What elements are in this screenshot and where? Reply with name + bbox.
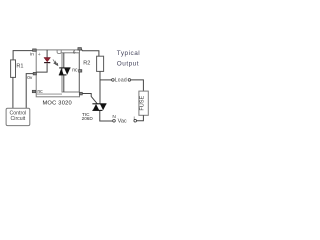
photo-triac of U1 — [59, 68, 71, 75]
node L line terminal — [134, 119, 137, 122]
wire pin 6 to R2 — [81, 49, 99, 56]
LED D1 — [44, 58, 51, 64]
triac Q1 TIC 206D — [92, 104, 106, 111]
wire Load terminal to fuse — [131, 80, 144, 91]
detector chip inner box — [62, 53, 79, 92]
svg-text:R1: R1 — [16, 64, 23, 70]
wire 0v from control circuit to opto pin 2 — [26, 74, 34, 109]
svg-text:Circuit: Circuit — [11, 116, 26, 122]
wire pin 4 to triac gate — [82, 94, 97, 104]
svg-text:nc: nc — [37, 89, 43, 95]
title Typical Output — [117, 50, 140, 68]
svg-text:MOC 3020: MOC 3020 — [42, 100, 72, 106]
package notch — [57, 50, 61, 54]
svg-text:+: + — [38, 52, 41, 58]
svg-text:L: L — [134, 115, 137, 121]
node Load right terminal — [128, 79, 131, 82]
pin 2 stub — [33, 72, 36, 75]
svg-text:Output: Output — [117, 60, 139, 67]
wire R2 bottom to triac MT2 — [99, 71, 101, 103]
pin 3 stub — [32, 90, 35, 92]
svg-text:in: in — [30, 52, 34, 58]
node Load left terminal — [112, 79, 115, 82]
wire from R1 bottom to control circuit — [12, 77, 14, 108]
label TIC 206D — [82, 112, 94, 121]
light emission arrows — [53, 59, 58, 65]
pin 6 stub — [78, 48, 82, 51]
svg-text:206D: 206D — [82, 116, 94, 121]
svg-text:6: 6 — [73, 50, 76, 55]
resistor R2 — [97, 56, 104, 71]
optocoupler U1 MOC 3020 package outline — [36, 50, 79, 97]
wire photo-triac top terminal — [63, 53, 65, 68]
resistor R1 — [11, 60, 16, 78]
svg-text:Load: Load — [115, 78, 127, 84]
pin 5 stub — [79, 70, 82, 73]
svg-text:nc: nc — [72, 68, 78, 74]
pin 1 stub — [33, 49, 37, 51]
control circuit box — [6, 108, 30, 125]
node N neutral terminal — [113, 120, 116, 123]
svg-text:N: N — [112, 114, 116, 120]
svg-text:0v: 0v — [27, 75, 33, 81]
svg-text:R2: R2 — [83, 60, 90, 66]
pin 4 stub — [79, 92, 82, 95]
wire triac MT1 to N terminal — [100, 111, 113, 122]
svg-text:FUSE: FUSE — [140, 95, 146, 110]
svg-text:Typical: Typical — [117, 50, 140, 57]
wire fuse to line terminal — [137, 115, 144, 120]
fuse F1 — [139, 91, 148, 115]
wire to Load terminal — [100, 79, 112, 81]
wire photo-triac bottom terminal — [63, 75, 65, 92]
package emitter-side bottom line — [36, 93, 62, 95]
wire LED cathode to pin 2 — [36, 63, 47, 72]
wire anode into LED — [46, 50, 48, 58]
svg-text:Vac: Vac — [118, 119, 127, 125]
wire from R1 top to opto pin 1 — [13, 51, 33, 60]
